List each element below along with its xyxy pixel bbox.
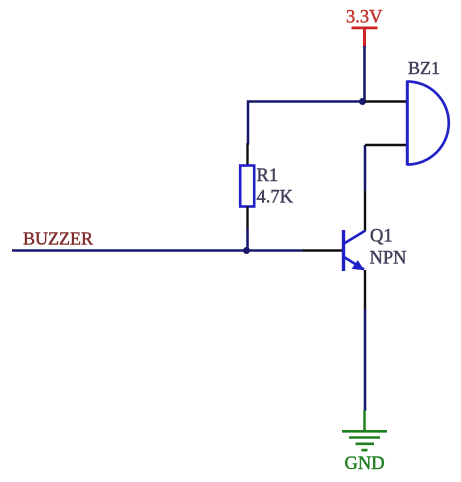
node junction top bbox=[359, 98, 366, 105]
ground bbox=[342, 410, 387, 450]
wire power to junction bbox=[363, 46, 366, 102]
wire BUZZER net horizontal bbox=[12, 249, 304, 252]
svg-text:BZ1: BZ1 bbox=[408, 58, 440, 78]
power 3.3V bbox=[346, 8, 383, 48]
svg-text:R1: R1 bbox=[257, 166, 279, 186]
svg-text:GND: GND bbox=[345, 454, 385, 474]
node junction buzzer net bbox=[243, 247, 250, 254]
wire emitter to ground bbox=[364, 309, 367, 411]
resistor R1 bbox=[240, 143, 254, 230]
svg-text:NPN: NPN bbox=[370, 249, 407, 269]
svg-text:3.3V: 3.3V bbox=[346, 8, 383, 28]
svg-text:4.7K: 4.7K bbox=[257, 188, 294, 208]
wire buzzer to collector bbox=[364, 145, 367, 191]
svg-text:Q1: Q1 bbox=[370, 227, 393, 247]
transistor Q1 bbox=[303, 190, 366, 310]
wire top horizontal bbox=[248, 102, 366, 145]
wire resistor to buzzer net bbox=[246, 229, 249, 251]
buzzer BZ1 bbox=[365, 81, 449, 166]
svg-text:BUZZER: BUZZER bbox=[23, 229, 93, 249]
